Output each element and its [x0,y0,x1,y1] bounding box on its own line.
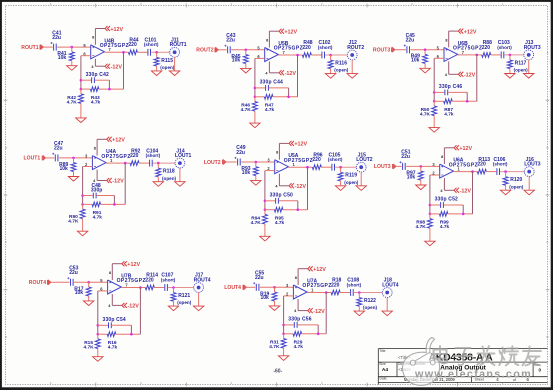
watermark logo [403,338,440,386]
svg-text:8: 8 [295,276,297,280]
wire C to jack [500,171,524,173]
svg-text:8: 8 [276,151,278,155]
op-amp U7B OP275GPZ [108,274,146,295]
capacitor C49 22u [235,145,246,165]
title block texts [379,349,541,382]
ground below R17 [84,301,94,306]
capacitor C46 330p feedback [434,84,467,101]
junction output feedback tap [306,166,309,169]
wire feedback left vertical [82,167,84,205]
svg-text:+12V: +12V [127,262,140,268]
wire feedback right vertical [123,52,125,89]
junction feedback cap left [81,194,84,197]
svg-text:220: 220 [477,162,486,168]
svg-text:10k: 10k [232,58,241,64]
svg-text:OP275GPZ: OP275GPZ [302,283,331,289]
svg-text:22u: 22u [226,38,235,44]
junction feedback res right [317,333,320,336]
ground below R115 [151,71,161,76]
resistor R50 4.7K to ground [420,101,437,127]
capacitor C47 22u [52,141,63,161]
wire feedback left vertical [97,291,99,334]
capacitor C108 (short) [347,278,362,296]
svg-text:LOUT3: LOUT3 [524,162,541,168]
wire feedback left vertical [433,58,435,101]
node ROUT1 input net label [21,45,43,51]
wire to C(short) [486,171,496,173]
power -12V symbol [95,59,122,71]
junction feedback res right [113,203,116,206]
resistor R15 4.7K to ground [84,334,101,357]
op-amp U5A OP275GPZ [275,153,313,174]
svg-text:+12V: +12V [464,29,477,35]
svg-text:22u: 22u [54,146,63,152]
junction feedback res right [297,208,300,211]
wire jack shield to ground [528,60,530,74]
svg-text:-12V: -12V [460,189,472,195]
resistor R96 220 series [312,152,322,169]
ground below R46 [250,123,260,128]
junction at input shunt [245,49,248,52]
svg-text:R117: R117 [515,60,527,66]
junction feedback res left [282,333,285,336]
svg-text:-12V: -12V [128,304,140,310]
ground below jack [356,186,366,191]
ground below R94 [260,236,270,241]
resistor R118 (open) shunt [156,163,177,182]
connector J16 LOUT3 jack [524,157,541,177]
wire op-amp - input stub [265,170,275,172]
power +12V symbol [444,145,472,164]
svg-text:330p C44: 330p C44 [260,80,283,86]
svg-text:OP275GPZ: OP275GPZ [101,154,130,160]
svg-text:LOUT2: LOUT2 [204,160,221,166]
svg-text:10k: 10k [242,170,251,176]
ground below R49 [420,68,430,73]
ground below jack [175,182,185,187]
junction at input shunt [420,165,423,168]
svg-text:8: 8 [109,271,111,275]
ground below R50 [429,128,439,133]
power +12V symbol [112,261,140,280]
svg-text:(short): (short) [146,153,161,158]
svg-text:22u: 22u [255,275,264,281]
junction feedback res left [264,208,267,211]
svg-text:22u: 22u [69,270,78,276]
svg-text:(open): (open) [177,300,192,305]
ground below R119 [335,186,345,191]
wire jack shield to ground [179,168,181,182]
svg-text:10k: 10k [411,58,420,64]
power -12V symbol [97,170,124,185]
wire op-amp output [106,162,130,164]
junction feedback res right [462,213,465,216]
wire op-amp output [278,54,302,56]
capacitor C56 330p feedback [284,317,319,334]
power -12V symbol [298,299,325,315]
svg-text:22u: 22u [52,35,61,41]
svg-text:4.7k: 4.7k [108,344,118,350]
junction at input shunt [71,46,74,49]
wire jack shield to ground [360,172,362,186]
resistor R48 220 series [302,40,312,57]
svg-text:Title: Title [379,349,385,353]
svg-text:4.7k: 4.7k [294,344,304,350]
junction at open shunt [172,286,175,289]
wire input to coupling cap [46,157,55,159]
ground below jack [524,190,534,195]
wire jack shield to ground [528,177,530,191]
svg-text:4.7K: 4.7K [68,219,79,225]
svg-text:4.7K: 4.7K [241,107,252,113]
wire feedback right vertical [325,293,327,334]
svg-text:+12V: +12V [459,146,472,152]
wire cap to op-amp + input [411,49,444,51]
op-amp U7A OP275GPZ [293,279,331,300]
connector J18 LOUT4 jack [382,278,399,298]
op-amp U4B OP275GPZ [91,38,129,59]
resistor R29 4.7k feedback [284,332,327,351]
resistor R17 10k input shunt [74,282,91,301]
node ROUT3 input net label [373,47,395,53]
svg-text:4.7K: 4.7K [416,224,427,230]
wire jack shield to ground [198,292,200,306]
capacitor C54 330p feedback [98,317,132,334]
ground below R93 [251,181,261,186]
ground below R45 [241,68,251,73]
wire feedback right vertical [476,55,478,101]
wire C to jack [335,166,356,168]
wire feedback right vertical [297,55,299,97]
wire cap to op-amp + input [59,157,92,159]
svg-text:R122: R122 [364,298,376,304]
svg-text:330p C52: 330p C52 [435,197,458,203]
svg-text:OP275GPZ: OP275GPZ [100,43,129,49]
svg-text:10k: 10k [75,290,84,296]
wire op-amp output [458,54,482,56]
power +12V symbol [269,29,297,48]
svg-text:LOUT4: LOUT4 [224,285,241,291]
resistor R98 4.7K to ground [416,214,433,241]
wire feedback right vertical [139,288,141,335]
ground below jack [524,74,534,79]
junction at open shunt [157,162,160,165]
junction at open shunt [329,54,332,57]
svg-text:4.7k: 4.7k [93,215,103,221]
wire feedback right vertical [124,163,126,204]
svg-text:10k: 10k [407,174,416,180]
resistor R90 4.7K to ground [68,204,85,231]
wire to C(short) [311,54,321,56]
junction output feedback tap [122,51,125,54]
resistor R16 4.7k feedback [98,332,141,351]
wire input to coupling cap [44,46,53,48]
junction output feedback tap [325,291,328,294]
wire feedback right vertical [307,167,309,210]
wire op-amp output [453,171,477,173]
junction at input shunt [87,281,90,284]
svg-text:Size: Size [379,362,386,366]
svg-text:8: 8 [441,155,443,159]
junction output feedback tap [296,54,299,57]
svg-text:OP275GPZ: OP275GPZ [284,158,313,164]
ground below R42 [76,118,86,123]
resistor R49 10k input shunt [411,50,428,69]
svg-text:R118: R118 [163,169,175,175]
svg-text:R119: R119 [345,173,357,179]
capacitor C43 22u [225,33,236,53]
capacitor C102 (short) [318,40,333,58]
svg-text:220: 220 [130,153,139,159]
wire C to jack [325,54,347,56]
wire to C(short) [137,51,147,53]
resistor R113 220 series [477,157,490,174]
svg-text:(short): (short) [318,45,333,50]
resistor R97 10k input shunt [406,166,423,185]
svg-text:ROUT4: ROUT4 [29,280,46,286]
wire input to coupling cap [219,49,227,51]
svg-text:22u: 22u [401,154,410,160]
resistor R44 220 series [128,38,138,55]
svg-text:220: 220 [128,42,137,48]
resistor R116 (open) shunt [328,55,349,74]
svg-text:+12V: +12V [112,138,125,144]
resistor R120 (open) shunt [503,172,524,191]
node LOUT4 input net label [224,285,246,291]
svg-text:22u: 22u [406,38,415,44]
svg-text:LOUT2: LOUT2 [356,157,373,163]
junction feedback res right [130,333,133,336]
junction at open shunt [358,291,361,294]
resistor R19 10k input shunt [260,287,277,306]
wire feedback right vertical [472,172,474,214]
capacitor C105 (short) [328,152,343,170]
svg-text:4.7k: 4.7k [275,220,285,226]
svg-text:330p C42: 330p C42 [86,72,109,78]
ground below R31 [278,356,288,361]
svg-text:(open): (open) [363,305,378,310]
ground below R98 [425,241,435,246]
connector J12 ROUT2 jack [347,40,364,60]
junction feedback res left [254,96,257,99]
svg-text:4.7K: 4.7K [84,344,95,350]
svg-text:OP275GPZ: OP275GPZ [117,278,146,284]
svg-text:LOUT3: LOUT3 [374,164,391,170]
junction at input shunt [72,157,75,160]
svg-text:(short): (short) [497,45,512,50]
svg-text:220: 220 [312,157,321,163]
wire feedback left vertical [264,171,266,210]
power -12V symbol [269,62,296,78]
wire to C(short) [139,162,149,164]
ground below R90 [77,231,87,236]
wire input to coupling cap [395,49,406,51]
svg-text:B: B [546,145,548,149]
svg-text:(short): (short) [493,162,508,167]
resistor R93 10k input shunt [241,162,258,181]
svg-text:ROUT3: ROUT3 [524,45,541,51]
ground below R15 [93,357,103,362]
ground below R122 [354,311,364,316]
wire feedback left vertical [283,296,285,334]
resistor R88 220 series [482,40,492,57]
wire cap to op-amp + input [241,161,274,163]
svg-text:(open): (open) [509,184,524,189]
wire op-amp output [288,166,312,168]
svg-text:(short): (short) [144,42,159,47]
junction at open shunt [504,170,507,173]
ground below R118 [153,182,163,187]
wire cap to op-amp + input [74,281,107,283]
capacitor C42 330p feedback [81,72,110,89]
svg-text:220: 220 [482,45,491,51]
svg-text:-12V: -12V [285,71,297,77]
resistor R92 220 series [130,148,140,165]
svg-text:-12V: -12V [111,64,123,70]
resistor R47 4.7k feedback [255,95,298,114]
wire to C(short) [491,54,501,56]
capacitor C52 330p feedback [430,197,463,214]
wire op-amp - input stub [430,174,440,176]
capacitor C53 22u [67,266,78,286]
power +12V symbol [95,26,123,45]
svg-text:330p C56: 330p C56 [288,317,311,323]
wire feedback left vertical [80,56,82,89]
op-amp U6B OP275GPZ [444,41,482,62]
wire op-amp output [104,51,128,53]
svg-text:10k: 10k [60,166,69,172]
svg-text:4.7k: 4.7k [440,224,450,230]
wire cap to op-amp + input [260,286,293,288]
wire jack shield to ground [386,297,388,311]
connector J14 LOUT1 jack [175,148,192,168]
svg-text:+12V: +12V [284,30,297,36]
junction output feedback tap [124,162,127,165]
ground below R116 [325,74,335,79]
wire op-amp - input stub [434,57,444,59]
svg-text:(open): (open) [162,176,177,181]
svg-text:R115: R115 [161,58,173,64]
junction feedback res left [81,203,84,206]
capacitor C50 330p feedback [265,192,298,209]
wire C to jack [168,287,194,289]
resistor R45 10k input shunt [231,50,248,69]
svg-text:-12V: -12V [464,73,476,79]
ground below R121 [168,306,178,311]
resistor R87 4.7k feedback [434,99,477,118]
junction feedback res right [287,96,290,99]
wire op-amp output [121,287,145,289]
junction feedback cap left [433,91,436,94]
svg-text:ROUT1: ROUT1 [170,42,187,48]
wire C to jack [153,162,175,164]
svg-text:Date:: Date: [380,377,388,381]
svg-text:+12V: +12V [294,142,307,148]
resistor R95 4.7k feedback [265,207,308,226]
junction feedback cap left [97,324,100,327]
svg-text:+12V: +12V [110,27,123,33]
junction feedback cap left [282,324,285,327]
node ROUT4 input net label [29,280,51,286]
svg-text:R121: R121 [178,293,190,299]
svg-text:220: 220 [145,277,154,283]
svg-text:8: 8 [266,38,268,42]
op-amp U4A OP275GPZ [92,149,130,170]
svg-text:-12V: -12V [112,179,124,185]
resistor R94 4.7K to ground [251,210,268,237]
ground below R97 [416,185,426,190]
resistor R99 4.7k feedback [430,212,473,231]
ground below R41 [67,66,77,71]
capacitor C101 (short) [144,38,159,56]
junction feedback cap left [429,204,432,207]
svg-text:R116: R116 [335,61,347,67]
node LOUT2 input net label [204,159,226,165]
wire jack shield to ground [174,57,176,71]
svg-text:(open): (open) [514,68,529,73]
resistor R117 (open) shunt [507,55,528,74]
svg-text:LOUT1: LOUT1 [24,156,41,162]
resistor R46 4.7K to ground [241,97,258,123]
power -12V symbol [449,61,476,78]
power +12V symbol [449,29,477,48]
junction output feedback tap [139,286,142,289]
svg-text:ROUT4: ROUT4 [194,277,211,283]
svg-text:220: 220 [331,282,340,288]
wire to C(short) [321,166,331,168]
ground below R120 [500,190,510,195]
wire input to coupling cap [226,161,236,163]
junction at open shunt [155,51,158,54]
svg-text:OP275GPZ: OP275GPZ [274,46,303,52]
capacitor C44 330p feedback [255,80,289,97]
power -12V symbol [279,174,306,190]
svg-text:(short): (short) [328,157,343,162]
power +12V symbol [97,137,125,156]
resistor R119 (open) shunt [338,167,359,186]
wire input to coupling cap [247,286,256,288]
junction feedback res left [97,333,100,336]
resistor R18 220 series [331,278,341,295]
watermark Chinese characters [434,346,542,366]
svg-text:(open): (open) [160,65,175,70]
svg-text:-60-: -60- [273,369,282,375]
svg-text:4.7k: 4.7k [444,112,454,118]
wire cap to op-amp + input [406,165,439,167]
op-amp U5B OP275GPZ [265,41,303,62]
svg-text:A: A [5,51,7,55]
svg-text:ROUT2: ROUT2 [347,45,364,51]
svg-text:330p C46: 330p C46 [439,84,462,90]
resistor R89 10k input shunt [59,158,76,177]
node LOUT1 input net label [24,155,46,161]
svg-text:330p C50: 330p C50 [270,192,293,198]
svg-text:8: 8 [92,36,94,40]
capacitor C45 22u [404,33,415,53]
wire C to jack [151,51,170,53]
wire jack shield to ground [351,60,353,74]
junction at open shunt [509,54,512,57]
wire feedback left vertical [429,175,431,214]
capacitor C51 22u [400,150,411,170]
svg-text:-12V: -12V [295,184,307,190]
svg-text:www.elecfans.com: www.elecfans.com [414,369,532,381]
ground below R89 [68,177,78,182]
power +12V symbol [279,141,307,160]
svg-text:B: B [5,145,7,149]
svg-text:ROUT2: ROUT2 [196,48,213,54]
junction feedback res left [80,88,83,91]
